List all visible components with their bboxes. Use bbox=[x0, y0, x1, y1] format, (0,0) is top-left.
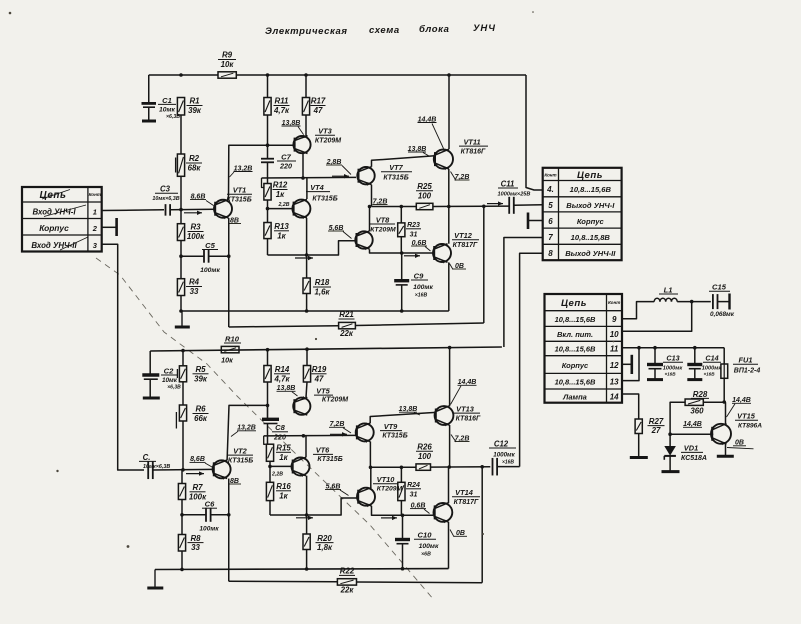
svg-text:14: 14 bbox=[610, 392, 619, 401]
svg-text:КС518А: КС518А bbox=[681, 455, 707, 462]
svg-text:1к: 1к bbox=[279, 491, 288, 500]
wire pin8 to channel2 output bbox=[520, 253, 543, 466]
svg-text:1к: 1к bbox=[276, 190, 285, 199]
svg-text:КТ315Б: КТ315Б bbox=[226, 197, 251, 204]
svg-text:КТ315Б: КТ315Б bbox=[312, 195, 337, 202]
resistor R23 bbox=[398, 222, 421, 238]
svg-text:27: 27 bbox=[651, 426, 661, 435]
wire C11 to pin5 bbox=[514, 204, 543, 207]
svg-text:4,7к: 4,7к bbox=[273, 106, 290, 115]
svg-text:22к: 22к bbox=[340, 586, 355, 595]
svg-text:R20: R20 bbox=[317, 534, 332, 543]
svg-text:R1: R1 bbox=[189, 97, 199, 106]
wire R17 to VT3 emitter bbox=[305, 115, 307, 136]
svg-text:47: 47 bbox=[313, 106, 323, 115]
svg-text:×16В: ×16В bbox=[502, 460, 514, 466]
wire VT3 collector bbox=[302, 153, 304, 178]
feedback line R21 bbox=[229, 326, 339, 327]
svg-text:10,8..15,8В: 10,8..15,8В bbox=[571, 233, 611, 242]
transistor VT13 bbox=[435, 404, 481, 426]
wire R24 top bbox=[400, 467, 402, 482]
svg-text:6: 6 bbox=[548, 217, 553, 226]
transistor VT1 bbox=[214, 186, 252, 220]
wire VT1 collector bbox=[229, 145, 268, 199]
wire pin7 to channel2 bus bbox=[504, 238, 543, 348]
svg-text:R10: R10 bbox=[225, 334, 240, 343]
svg-text:КТ315Б: КТ315Б bbox=[382, 433, 407, 440]
capacitor C9 bbox=[394, 253, 433, 311]
wire VT2 emitter bbox=[228, 479, 230, 582]
resistor R27 bbox=[635, 417, 664, 435]
svg-text:10к: 10к bbox=[221, 356, 233, 365]
svg-text:С3: С3 bbox=[160, 185, 171, 194]
signal arrow bbox=[330, 433, 347, 435]
wire node to VT12 base bbox=[402, 252, 434, 254]
svg-text:схема: схема bbox=[369, 25, 400, 36]
svg-text:КТ209М: КТ209М bbox=[377, 486, 403, 493]
svg-text:КТ209М: КТ209М bbox=[370, 226, 396, 233]
svg-text:VT4: VT4 bbox=[310, 183, 324, 192]
svg-text:68к: 68к bbox=[188, 164, 202, 173]
power bus bottom channel bbox=[150, 347, 502, 351]
wire VT10 base drive bbox=[270, 498, 357, 515]
power bus top channel bbox=[149, 74, 218, 76]
ground symbol bottom channel bbox=[154, 570, 156, 588]
node line to VT9 bbox=[264, 434, 357, 437]
feedback wire top channel bbox=[483, 206, 485, 323]
svg-text:VD1: VD1 bbox=[684, 444, 698, 453]
svg-text:Лампа: Лампа bbox=[562, 392, 587, 401]
svg-text:R2: R2 bbox=[189, 154, 200, 163]
svg-text:VT7: VT7 bbox=[389, 163, 403, 172]
wire VT8 emitter to node bbox=[370, 249, 402, 253]
svg-text:КТ315Б: КТ315Б bbox=[317, 456, 342, 463]
inductor L1 bbox=[654, 285, 678, 301]
svg-text:R23: R23 bbox=[407, 222, 420, 229]
svg-text:FU1: FU1 bbox=[739, 356, 753, 365]
resistor R6 bbox=[176, 405, 208, 429]
svg-text:КТ896А: КТ896А bbox=[738, 423, 762, 430]
wire pin10 bbox=[622, 302, 692, 332]
wire R23 top bbox=[400, 207, 402, 223]
svg-text:VT1: VT1 bbox=[233, 186, 247, 195]
resistor R20 bbox=[303, 534, 334, 552]
svg-text:39к: 39к bbox=[194, 374, 208, 383]
svg-text:КТ817Г: КТ817Г bbox=[453, 242, 478, 249]
wire R28 right node bbox=[703, 401, 724, 403]
svg-text:С2: С2 bbox=[164, 366, 174, 375]
wire VT14 emitter bbox=[448, 522, 450, 569]
svg-text:С1: С1 bbox=[162, 96, 172, 105]
svg-text:R15: R15 bbox=[276, 444, 291, 453]
svg-text:10: 10 bbox=[610, 330, 619, 339]
svg-text:С9: С9 bbox=[414, 271, 424, 280]
resistor R8 bbox=[178, 534, 203, 552]
svg-text:Корпус: Корпус bbox=[577, 217, 605, 226]
svg-text:Вкл. пит.: Вкл. пит. bbox=[557, 330, 593, 339]
svg-text:10,8...15,6В: 10,8...15,6В bbox=[555, 378, 596, 387]
transistor VT12 bbox=[433, 231, 479, 264]
wire to VT4 base bbox=[268, 208, 293, 210]
svg-text:R26: R26 bbox=[417, 443, 432, 452]
svg-text:R5: R5 bbox=[195, 365, 206, 374]
capacitor C3 bbox=[152, 185, 179, 216]
wire C3 to VT1 base bbox=[170, 208, 215, 211]
svg-text:100мк: 100мк bbox=[419, 543, 439, 550]
wire R27 to ground bbox=[638, 434, 640, 457]
ground bus bottom channel bbox=[155, 568, 449, 571]
capacitor C14 bbox=[687, 348, 722, 380]
resistor R16 bbox=[266, 482, 291, 501]
svg-text:2,2В: 2,2В bbox=[278, 202, 290, 208]
capacitor C2 bbox=[142, 351, 181, 398]
wire VT15 emitter bbox=[725, 444, 727, 455]
svg-text:КТ315Б: КТ315Б bbox=[228, 457, 253, 464]
svg-text:R3: R3 bbox=[190, 223, 201, 232]
resistor R13 bbox=[264, 222, 289, 240]
svg-text:1,6к: 1,6к bbox=[315, 288, 331, 297]
resistor R9 bbox=[218, 51, 236, 79]
svg-text:Конт: Конт bbox=[544, 173, 556, 178]
wire R24 bottom bbox=[400, 501, 402, 516]
svg-text:33: 33 bbox=[191, 543, 200, 552]
svg-text:L1: L1 bbox=[664, 285, 673, 294]
wire R13 to emitter line bbox=[267, 239, 269, 255]
connector table X1 (inputs) bbox=[22, 187, 102, 252]
svg-text:360: 360 bbox=[690, 406, 704, 415]
signal arrow bbox=[184, 212, 202, 214]
svg-text:100: 100 bbox=[418, 191, 432, 200]
resistor R5 bbox=[177, 365, 208, 383]
svg-text:1к: 1к bbox=[277, 231, 286, 240]
svg-text:33: 33 bbox=[190, 287, 199, 296]
ground chassis bar pin12 bbox=[630, 355, 633, 374]
svg-text:Выход УНЧ-II: Выход УНЧ-II bbox=[565, 249, 616, 258]
svg-text:R17: R17 bbox=[311, 97, 326, 106]
svg-text:×6В: ×6В bbox=[421, 551, 431, 557]
resistor R17 bbox=[302, 97, 325, 115]
svg-text:9: 9 bbox=[612, 315, 617, 324]
signal arrow bbox=[332, 175, 349, 177]
svg-text:С.: С. bbox=[143, 453, 151, 462]
svg-text:1к: 1к bbox=[279, 453, 288, 462]
wire pin9 to L1 bbox=[622, 302, 654, 319]
transistor VT2 bbox=[213, 446, 254, 480]
svg-text:КТ817Г: КТ817Г bbox=[454, 499, 479, 506]
svg-text:220: 220 bbox=[273, 432, 286, 441]
resistor R14 bbox=[264, 365, 291, 383]
ground chassis bar pin2 bbox=[115, 218, 118, 236]
transistor VT9 bbox=[356, 422, 408, 443]
title text bbox=[265, 23, 496, 37]
resistor R18 bbox=[303, 278, 331, 297]
transistor VT4 bbox=[292, 183, 337, 219]
svg-text:10,8...15,6В: 10,8...15,6В bbox=[555, 315, 596, 324]
svg-text:R7: R7 bbox=[192, 483, 203, 492]
wire R1-R2 bbox=[180, 115, 182, 154]
svg-text:С6: С6 bbox=[205, 500, 215, 509]
transistor VT15 bbox=[711, 412, 762, 446]
transistor VT3 bbox=[293, 127, 341, 154]
svg-text:31: 31 bbox=[410, 231, 418, 238]
wire pin2 to ground bbox=[102, 226, 117, 228]
resistor R10 bbox=[221, 334, 241, 364]
svg-text:КТ816Г: КТ816Г bbox=[456, 416, 481, 423]
paper crease line bbox=[96, 258, 434, 600]
svg-text:7: 7 bbox=[548, 233, 553, 242]
svg-text:Выход УНЧ-I: Выход УНЧ-I bbox=[566, 201, 615, 210]
wire VT6 collector bbox=[305, 436, 307, 458]
capacitor C13 bbox=[647, 348, 683, 380]
svg-text:С8: С8 bbox=[275, 423, 285, 432]
wire VT15 collector bbox=[725, 402, 727, 424]
svg-text:220: 220 bbox=[279, 162, 292, 171]
wire VT7 collector to VT11 base bbox=[372, 156, 435, 167]
fuse FU1 bbox=[721, 348, 760, 402]
svg-text:22к: 22к bbox=[339, 329, 354, 338]
svg-text:VT6: VT6 bbox=[316, 446, 330, 455]
wire pin1 to C3 bbox=[102, 209, 164, 212]
wire VT11 emitter bbox=[448, 169, 450, 207]
svg-text:VT3: VT3 bbox=[318, 127, 332, 136]
signal arrow bbox=[487, 203, 503, 205]
svg-text:Корпус: Корпус bbox=[562, 361, 589, 370]
ground bus top channel bbox=[181, 310, 449, 312]
svg-text:10мк: 10мк bbox=[159, 106, 176, 113]
svg-text:С12: С12 bbox=[494, 439, 509, 448]
capacitor C4 bbox=[139, 453, 170, 479]
transistor VT6 bbox=[292, 446, 343, 477]
wire R14 to node bbox=[267, 382, 269, 419]
svg-text:12: 12 bbox=[610, 361, 619, 370]
signal arrow bbox=[381, 517, 397, 519]
wire VT13 collector to bus bbox=[449, 348, 451, 407]
wire VT9 collector to VT13 base bbox=[370, 412, 435, 423]
svg-text:R22: R22 bbox=[340, 567, 355, 576]
svg-text:R14: R14 bbox=[275, 365, 290, 374]
svg-text:10мк: 10мк bbox=[162, 377, 178, 384]
capacitor C10 bbox=[395, 515, 439, 568]
capacitor C15 bbox=[709, 283, 735, 318]
svg-text:100к: 100к bbox=[187, 232, 205, 241]
svg-text:блока: блока bbox=[419, 24, 450, 35]
wire VT15 base line bbox=[670, 433, 713, 435]
svg-text:С15: С15 bbox=[712, 283, 727, 292]
svg-text:VT12: VT12 bbox=[454, 231, 473, 240]
svg-text:Электрическая: Электрическая bbox=[265, 26, 348, 37]
wire C7 to R12 bbox=[267, 162, 269, 183]
resistor R12 bbox=[262, 178, 288, 200]
svg-text:КТ315Б: КТ315Б bbox=[383, 174, 408, 181]
svg-text:×6,3В: ×6,3В bbox=[167, 384, 181, 390]
svg-text:×16В: ×16В bbox=[415, 293, 428, 299]
wire to VT6 base bbox=[270, 465, 292, 467]
svg-text:VT8: VT8 bbox=[376, 215, 390, 224]
resistor R11 bbox=[264, 97, 290, 115]
wire R6 to input node bbox=[182, 421, 184, 470]
capacitor C8 bbox=[262, 405, 288, 444]
svg-text:10,8...15,6В: 10,8...15,6В bbox=[570, 185, 612, 194]
svg-text:С10: С10 bbox=[418, 531, 433, 540]
transistor VT8 bbox=[355, 215, 396, 250]
feedback wire bottom channel bbox=[481, 467, 483, 583]
output line bottom channel bbox=[371, 466, 417, 468]
svg-text:КТ209М: КТ209М bbox=[322, 396, 348, 403]
svg-text:R25: R25 bbox=[417, 182, 432, 191]
svg-text:VT11: VT11 bbox=[463, 137, 480, 146]
svg-text:R27: R27 bbox=[649, 417, 664, 426]
wire VT9 emitter bbox=[369, 442, 371, 468]
resistor R25 bbox=[416, 182, 433, 210]
wire node to VT14 base bbox=[403, 514, 434, 516]
wire VT3 base bbox=[268, 144, 295, 146]
wire VT8 collector bbox=[369, 207, 371, 232]
resistor R15 bbox=[266, 444, 291, 462]
resistor R21 bbox=[339, 310, 356, 338]
wire VT7 emitter bbox=[371, 185, 373, 207]
wire C12 to pin8 bbox=[497, 466, 519, 468]
resistor R28 bbox=[685, 390, 709, 416]
transistor VT14 bbox=[434, 488, 481, 523]
output line top channel bbox=[372, 206, 417, 208]
svg-text:10мк×6,3В: 10мк×6,3В bbox=[143, 464, 170, 470]
svg-text:5: 5 bbox=[548, 201, 553, 210]
signal arrow bbox=[404, 255, 420, 257]
node VT6 base bbox=[268, 465, 272, 469]
svg-text:39к: 39к bbox=[188, 106, 202, 115]
resistor R3 bbox=[177, 223, 205, 241]
wire VT8 base drive bbox=[268, 241, 356, 255]
svg-text:2,2В: 2,2В bbox=[271, 472, 283, 478]
wire bus to pin4 bbox=[526, 75, 543, 190]
svg-text:КТ816Г: КТ816Г bbox=[461, 148, 486, 155]
node line to VT7 bbox=[262, 176, 357, 179]
wire VT10 collector bbox=[370, 467, 372, 487]
wire VT2 collector bbox=[227, 405, 267, 460]
svg-text:R11: R11 bbox=[275, 97, 289, 106]
wire VT4 collector bbox=[306, 178, 308, 199]
svg-text:1,8к: 1,8к bbox=[317, 543, 333, 552]
wire VT1 emitter bbox=[228, 218, 230, 327]
svg-text:VT13: VT13 bbox=[456, 404, 475, 413]
capacitor C5 bbox=[179, 241, 229, 274]
wire pin11 supply line bbox=[622, 347, 724, 349]
svg-text:УНЧ: УНЧ bbox=[473, 23, 496, 34]
svg-text:Конт: Конт bbox=[608, 300, 620, 305]
svg-text:100мк: 100мк bbox=[413, 284, 433, 291]
svg-text:10мк×6,3В: 10мк×6,3В bbox=[152, 196, 179, 202]
svg-text:0,068мк: 0,068мк bbox=[710, 311, 735, 318]
wire C4 to VT2 base bbox=[153, 468, 214, 471]
wire R23 bottom bbox=[400, 237, 402, 253]
svg-text:VT15: VT15 bbox=[737, 412, 756, 421]
svg-text:R13: R13 bbox=[274, 222, 289, 231]
svg-text:R18: R18 bbox=[315, 278, 330, 287]
zener diode VD1 bbox=[662, 434, 708, 471]
connector table X3 (power) bbox=[545, 294, 623, 403]
svg-text:Корпус: Корпус bbox=[39, 223, 69, 233]
node VT4 base bbox=[266, 207, 270, 211]
resistor R19 bbox=[303, 365, 326, 383]
wire R28 left to VD1 node bbox=[670, 402, 685, 434]
signal arrow bbox=[186, 473, 204, 475]
svg-text:VT9: VT9 bbox=[384, 422, 398, 431]
svg-text:R4: R4 bbox=[189, 278, 200, 287]
wire VT4 emitter bbox=[306, 218, 308, 255]
svg-text:100мк: 100мк bbox=[200, 267, 220, 274]
svg-text:R28: R28 bbox=[693, 390, 708, 399]
svg-text:R19: R19 bbox=[312, 365, 327, 374]
resistor R24 bbox=[398, 482, 421, 501]
svg-text:R8: R8 bbox=[190, 534, 201, 543]
svg-text:С14: С14 bbox=[705, 354, 718, 363]
resistor R4 bbox=[177, 278, 202, 296]
wire pin3 down to channel 2 input bbox=[102, 244, 144, 470]
svg-text:100мк: 100мк bbox=[199, 526, 219, 533]
svg-text:VT2: VT2 bbox=[233, 446, 247, 455]
svg-text:С13: С13 bbox=[666, 354, 679, 363]
wire R2 to input node bbox=[180, 176, 182, 223]
svg-text:С11: С11 bbox=[501, 179, 515, 188]
wire R7-R8 bbox=[181, 500, 183, 535]
svg-text:КТ209М: КТ209М bbox=[315, 138, 341, 145]
capacitor C11 bbox=[498, 179, 531, 214]
feedback line R22 bbox=[229, 580, 338, 583]
wire VT11 collector to bus bbox=[448, 75, 450, 149]
svg-text:×16В: ×16В bbox=[703, 372, 715, 377]
wire VT12 emitter bbox=[448, 262, 450, 311]
svg-text:1: 1 bbox=[93, 208, 97, 217]
transistor VT7 bbox=[357, 163, 412, 186]
svg-text:×16В: ×16В bbox=[664, 372, 676, 377]
svg-text:4.: 4. bbox=[546, 185, 554, 194]
capacitor C1 bbox=[142, 75, 181, 121]
svg-text:Цепь: Цепь bbox=[577, 170, 603, 181]
svg-text:1000мк×25В: 1000мк×25В bbox=[498, 192, 531, 198]
capacitor C12 bbox=[489, 439, 516, 475]
wire VT13 emitter bbox=[449, 425, 451, 467]
svg-text:R12: R12 bbox=[273, 181, 288, 190]
svg-text:R9: R9 bbox=[222, 51, 233, 60]
svg-text:С7: С7 bbox=[281, 152, 291, 161]
transistor VT5 bbox=[293, 386, 348, 415]
svg-text:С5: С5 bbox=[205, 241, 215, 250]
wire R3-R4 bbox=[180, 241, 182, 279]
svg-text:Конт: Конт bbox=[89, 192, 101, 197]
svg-text:VT5: VT5 bbox=[316, 386, 330, 395]
svg-text:8: 8 bbox=[548, 249, 553, 258]
wire L1 to C15 bbox=[677, 301, 711, 303]
svg-text:ВП1-2-4: ВП1-2-4 bbox=[734, 368, 761, 375]
wire R19 to VT5 emitter bbox=[306, 382, 307, 397]
wire R4 to ground bus bbox=[180, 296, 182, 312]
wire pin14 to R27 bbox=[622, 394, 639, 419]
wire VT6 emitter bbox=[306, 476, 308, 515]
connector table X2 (outputs) bbox=[543, 168, 622, 260]
svg-text:47: 47 bbox=[314, 374, 324, 383]
wire VT12 collector bbox=[448, 207, 450, 244]
wire pin12 to ground bbox=[622, 363, 632, 365]
svg-text:R16: R16 bbox=[276, 482, 291, 491]
resistor R26 bbox=[416, 443, 433, 471]
svg-text:100: 100 bbox=[418, 452, 432, 461]
capacitor C6 bbox=[180, 500, 229, 533]
wire VT10 emitter to node bbox=[372, 506, 403, 515]
scan specks bbox=[56, 470, 58, 472]
wire R5-R6 bbox=[182, 382, 184, 405]
wire pin13 to supply line bbox=[622, 348, 639, 381]
svg-text:R21: R21 bbox=[339, 310, 353, 319]
